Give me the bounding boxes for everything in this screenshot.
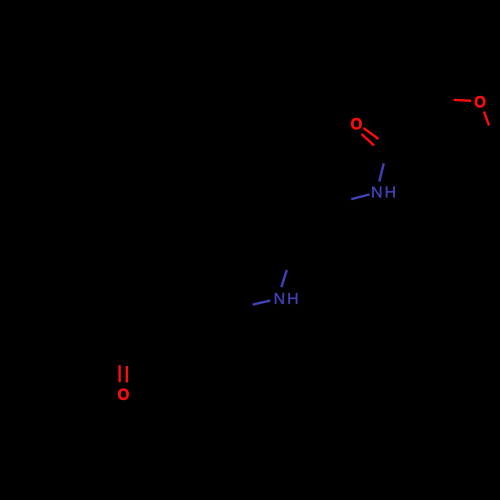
- svg-text:H: H: [385, 185, 397, 202]
- svg-text:O: O: [118, 387, 130, 405]
- svg-text:N: N: [371, 185, 383, 202]
- svg-text:O: O: [474, 94, 486, 112]
- svg-text:N: N: [274, 291, 286, 308]
- svg-text:H: H: [287, 291, 299, 308]
- svg-text:O: O: [351, 116, 363, 134]
